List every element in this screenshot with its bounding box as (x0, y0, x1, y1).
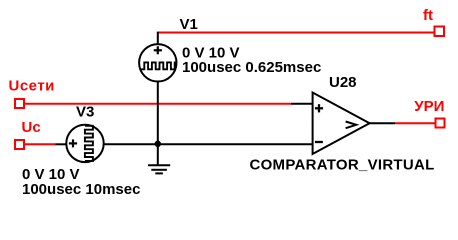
wire bottom rail from V3 to comparator - input (104, 143, 313, 145)
pin - mark (315, 141, 323, 143)
wire comparator output pin stub (black) (369, 122, 395, 124)
terminal Uc connector (15, 140, 24, 149)
node junction dot at V1/V3/ground (155, 141, 161, 147)
wire ft net (red rail from V1 top to ft connector) (158, 32, 435, 34)
comparator > mark (346, 122, 357, 129)
wire V1 bottom pin to junction (157, 82, 159, 146)
svg-text:Uc: Uc (22, 119, 41, 136)
svg-text:V3: V3 (76, 103, 94, 120)
wire Uсети net (red rail to comparator + input) (25, 103, 291, 105)
pin + mark (318, 104, 320, 112)
wire УРИ net (red segment to output connector) (395, 122, 436, 124)
svg-text:Uсети: Uсети (9, 78, 55, 95)
wire Uc net (red segment from Uc connector) (25, 143, 56, 145)
wire V1 top pin stub (157, 32, 159, 45)
ground symbol (148, 144, 170, 173)
svg-text:V1: V1 (180, 16, 198, 33)
svg-text:ft: ft (423, 7, 433, 24)
svg-text:100usec 0.625msec: 100usec 0.625msec (182, 59, 321, 76)
comparator U1 (COMPARATOR_VIRTUAL U28) (313, 93, 370, 155)
svg-text:100usec 10msec: 100usec 10msec (22, 181, 140, 198)
svg-text:COMPARATOR_VIRTUAL: COMPARATOR_VIRTUAL (250, 157, 435, 174)
wire comparator + input pin stub (black) (291, 103, 313, 105)
terminal ft connector (435, 27, 445, 37)
clock voltage source V1 (139, 44, 177, 81)
wire V3 left pin stub (black) (56, 143, 68, 145)
svg-text:УРИ: УРИ (414, 98, 444, 115)
terminal УРИ connector (436, 119, 445, 128)
terminal Uсети connector (15, 99, 24, 108)
clock voltage source V3 (66, 125, 103, 162)
svg-text:U28: U28 (329, 74, 357, 91)
